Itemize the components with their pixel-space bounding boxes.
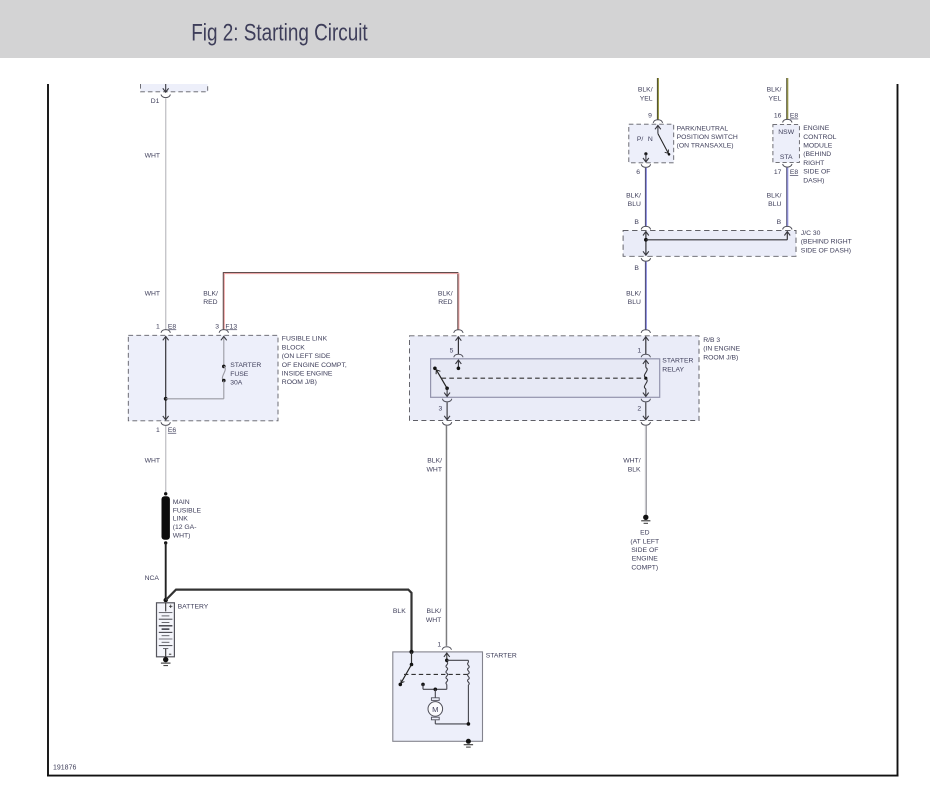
svg-text:BLK/: BLK/ [427, 608, 442, 615]
label BLK/BLU lower [626, 290, 641, 306]
fusible link block dashed box [128, 335, 278, 421]
label MAIN FUSIBLE LINK [173, 499, 202, 540]
starter motor ground wire [435, 722, 470, 726]
wire NCA fusible link to battery [165, 543, 167, 600]
relay pin 3 lead [444, 388, 450, 396]
svg-text:PARK/NEUTRAL: PARK/NEUTRAL [677, 125, 729, 132]
P/N switch output contact [643, 152, 649, 162]
svg-text:LINK: LINK [173, 516, 189, 523]
svg-text:COMPT): COMPT) [631, 564, 658, 571]
svg-text:WHT: WHT [145, 153, 160, 160]
svg-text:WHT: WHT [427, 467, 442, 474]
svg-text:BLU: BLU [768, 201, 781, 208]
svg-text:(12 GA-: (12 GA- [173, 524, 197, 531]
starter solenoid contact stub [421, 683, 425, 690]
svg-text:BLK/: BLK/ [767, 192, 782, 199]
svg-text:WHT): WHT) [173, 533, 191, 540]
svg-text:16: 16 [774, 113, 782, 120]
svg-text:WHT: WHT [145, 290, 160, 297]
connector arc pin 17 [783, 164, 792, 167]
connector arc starter pin 1 [442, 647, 451, 650]
svg-text:CONTROL: CONTROL [803, 134, 836, 141]
svg-text:BLK: BLK [628, 467, 641, 474]
J/C 30 junction dot [644, 238, 648, 242]
svg-text:2: 2 [637, 406, 641, 413]
connector arc relay pin 3 inner [442, 399, 451, 402]
connector arc pin 9 [653, 120, 662, 123]
connector arc J/C 30 right top [783, 226, 792, 229]
connector arc relay pin 1 outer [641, 330, 650, 333]
svg-text:STARTER: STARTER [230, 362, 261, 369]
starter pin 1 internal lead [444, 653, 450, 662]
wire BLK/RED fusible link to starter relay [223, 273, 459, 330]
svg-text:N: N [648, 136, 653, 143]
svg-text:BATTERY: BATTERY [178, 603, 209, 610]
connector arc relay pin 3 outer [442, 422, 451, 425]
label ENGINE CONTROL MODULE [803, 125, 836, 184]
svg-text:BLK/: BLK/ [638, 87, 653, 94]
starter coil output wire [423, 688, 447, 692]
svg-text:FUSIBLE LINK: FUSIBLE LINK [282, 336, 328, 343]
starter motor M [428, 689, 443, 724]
connector arc relay pin 1 inner [641, 354, 650, 357]
starter ground node [464, 739, 473, 747]
svg-text:BLK/: BLK/ [767, 87, 782, 94]
svg-text:BLOCK: BLOCK [282, 344, 306, 351]
label BLK/RED left [203, 290, 218, 306]
svg-text:30A: 30A [230, 380, 243, 387]
starter hold-in coil [468, 660, 470, 724]
svg-text:BLK/: BLK/ [203, 290, 218, 297]
svg-text:191876: 191876 [53, 765, 76, 772]
svg-text:NCA: NCA [145, 575, 160, 582]
svg-text:ED: ED [640, 530, 650, 537]
connector arc J/C 30 bottom [641, 258, 650, 261]
svg-text:3: 3 [215, 323, 219, 330]
wire WHT to main fusible link [165, 426, 167, 493]
pin 3 F13 fusible link block [215, 323, 237, 330]
starter fuse 30A element [222, 365, 226, 399]
pin 16 E8 [774, 113, 799, 120]
wire BLK/YEL to engine control module [787, 78, 788, 119]
svg-text:Fig 2: Starting Circuit: Fig 2: Starting Circuit [191, 18, 367, 46]
wire BLK/YEL to park/neutral position switch [657, 78, 658, 120]
P/N switch input arrow [655, 125, 661, 133]
svg-text:1: 1 [437, 641, 441, 648]
relay pin 3 outer lead [444, 402, 450, 419]
title banner [0, 0, 930, 58]
svg-text:1: 1 [156, 323, 160, 330]
wire BLK/BLU J/C 30 to starter relay [645, 262, 646, 330]
connector arc J/C 30 left top [641, 226, 650, 229]
svg-text:STARTER: STARTER [486, 653, 517, 660]
svg-text:SIDE OF: SIDE OF [803, 169, 830, 176]
svg-text:FUSE: FUSE [230, 371, 249, 378]
svg-text:E6: E6 [168, 427, 177, 434]
svg-text:B: B [777, 219, 782, 226]
svg-text:SIDE OF DASH): SIDE OF DASH) [801, 247, 851, 254]
pin 1 E8 fusible link block [156, 323, 176, 330]
svg-text:YEL: YEL [769, 95, 782, 102]
svg-text:FUSIBLE: FUSIBLE [173, 507, 202, 514]
junction dot in fusible link block [164, 397, 168, 401]
svg-text:BLK: BLK [393, 608, 406, 615]
fusible link block label [282, 336, 347, 387]
junction connector J/C 30 dashed box [623, 231, 796, 257]
svg-text:F13: F13 [225, 323, 237, 330]
pin 17 E8 [774, 169, 799, 176]
svg-text:9: 9 [648, 113, 652, 120]
relay block R/B 3 dashed box [410, 336, 700, 421]
park/neutral position switch dashed box [629, 124, 674, 163]
label BLK/WHT upper [427, 458, 443, 474]
svg-text:WHT: WHT [145, 457, 160, 464]
svg-text:(ON LEFT SIDE: (ON LEFT SIDE [282, 353, 331, 360]
wire BLK/WHT relay to starter [446, 426, 447, 646]
svg-text:ENGINE: ENGINE [803, 125, 830, 132]
svg-text:M: M [432, 705, 438, 714]
label ED (AT LEFT SIDE OF ENGINE COMPT) [630, 530, 659, 572]
connector arc pin 6 [641, 164, 650, 167]
starter mechanical dashed link [404, 673, 468, 675]
wire WHT/BLK relay to ground ED [645, 426, 646, 515]
svg-text:STARTER: STARTER [662, 358, 693, 365]
connector arc relay pin 5 inner [454, 354, 463, 357]
ground ED [641, 515, 650, 524]
connector arc below fusible link block [161, 422, 170, 425]
svg-text:RELAY: RELAY [662, 366, 684, 373]
svg-text:WHT: WHT [426, 617, 441, 624]
label P/ N [637, 136, 653, 143]
svg-text:BLK/: BLK/ [626, 290, 641, 297]
svg-text:ROOM J/B): ROOM J/B) [703, 354, 738, 361]
svg-text:MODULE: MODULE [803, 143, 833, 150]
label BLK/WHT lower [426, 608, 442, 624]
svg-text:POSITION SWITCH: POSITION SWITCH [677, 134, 738, 141]
J/C 30 left internal wire [643, 232, 649, 256]
svg-text:1: 1 [637, 347, 641, 354]
relay mechanical dashed link [442, 377, 644, 379]
starter switch input lead [410, 652, 414, 666]
svg-text:(ON TRANSAXLE): (ON TRANSAXLE) [677, 143, 734, 150]
svg-text:E8: E8 [790, 169, 799, 176]
svg-text:R/B 3: R/B 3 [703, 337, 720, 344]
svg-text:B: B [634, 265, 639, 272]
svg-text:RED: RED [438, 299, 452, 306]
svg-text:D1: D1 [151, 98, 160, 105]
svg-text:YEL: YEL [640, 95, 653, 102]
pin 1 E6 [156, 427, 176, 434]
svg-text:BLU: BLU [628, 299, 641, 306]
internal wire pin3 to fuse [221, 336, 227, 366]
svg-text:BLU: BLU [628, 201, 641, 208]
svg-text:P/: P/ [637, 136, 644, 143]
connector arc pin3 F13 [219, 330, 228, 333]
label BLK/BLU right [767, 192, 782, 208]
frame bottom border [47, 775, 899, 777]
svg-text:(BEHIND: (BEHIND [803, 151, 831, 158]
label BLK/RED right [438, 290, 453, 306]
label BLK/BLU left [626, 192, 641, 208]
svg-text:3: 3 [439, 406, 443, 413]
connector D1 dashed box [141, 84, 208, 92]
svg-text:DASH): DASH) [803, 177, 824, 184]
P/N switch arm [658, 134, 670, 156]
relay fixed contact [433, 367, 437, 371]
svg-text:STA: STA [780, 154, 793, 161]
svg-text:6: 6 [636, 169, 640, 176]
relay switch arm [436, 370, 449, 390]
svg-text:WHT/: WHT/ [623, 458, 640, 465]
connector arc pin 16 [783, 119, 792, 122]
svg-text:(BEHIND RIGHT: (BEHIND RIGHT [801, 239, 852, 246]
svg-text:RED: RED [203, 299, 217, 306]
J/C 30 right internal wire [784, 232, 790, 240]
label PARK/NEUTRAL POSITION SWITCH [677, 125, 738, 149]
svg-text:ROOM J/B): ROOM J/B) [282, 379, 317, 386]
junction node battery positive [164, 598, 168, 602]
svg-text:BLK/: BLK/ [427, 458, 442, 465]
battery ground [161, 657, 171, 666]
frame left border [47, 84, 49, 777]
label BLK/YEL right [767, 87, 782, 103]
battery [157, 603, 175, 657]
connector arc relay pin 2 outer [641, 422, 650, 425]
svg-text:(AT LEFT: (AT LEFT [630, 538, 659, 545]
starter pull-in coil [446, 662, 448, 689]
relay pin 2 outer lead [643, 402, 649, 419]
starter box [393, 652, 483, 741]
svg-text:(IN ENGINE: (IN ENGINE [703, 346, 740, 353]
connector arc relay pin 5 outer [454, 330, 463, 333]
svg-text:BLK/: BLK/ [626, 192, 641, 199]
label WHT/BLK [623, 458, 641, 474]
D1 arrow down [163, 84, 169, 92]
wire BLK battery to starter [166, 590, 412, 651]
J/C 30 bus wire [646, 239, 787, 241]
wire BLK/BLU ECM to J/C 30 [787, 168, 788, 227]
label R/B 3 [703, 337, 740, 361]
svg-text:OF ENGINE COMPT,: OF ENGINE COMPT, [282, 362, 347, 369]
frame right border [897, 84, 899, 777]
starter switch arm [399, 665, 412, 687]
svg-text:B: B [634, 219, 639, 226]
svg-text:J/C 30: J/C 30 [801, 230, 821, 237]
wire BLK/BLU switch to J/C 30 [645, 168, 646, 226]
svg-text:ENGINE: ENGINE [632, 556, 659, 563]
engine control module dashed box [773, 125, 800, 163]
main fusible link (12 GA-WHT) [162, 492, 170, 545]
label STARTER RELAY [662, 358, 693, 374]
svg-text:RIGHT: RIGHT [803, 160, 824, 167]
internal wire pin1 to pin E6 [163, 336, 169, 419]
connector arc relay pin 2 inner [641, 399, 650, 402]
D1 connector arc [161, 95, 170, 98]
starter relay inner box [431, 359, 660, 398]
starter BLK entry node [409, 650, 413, 654]
svg-text:1: 1 [156, 427, 160, 434]
svg-text:5: 5 [450, 347, 454, 354]
svg-text:BLK/: BLK/ [438, 290, 453, 297]
svg-text:INSIDE ENGINE: INSIDE ENGINE [282, 371, 333, 378]
relay contact input lead [456, 360, 462, 370]
svg-text:SIDE OF: SIDE OF [631, 547, 658, 554]
label J/C 30 [801, 230, 852, 254]
starter coil link wire [447, 659, 469, 661]
connector arc pin1 E8 [161, 330, 170, 333]
relay coil [643, 360, 649, 397]
svg-text:E8: E8 [168, 323, 177, 330]
relay pin 1 lead [643, 337, 649, 354]
relay pin 5 lead [456, 337, 462, 354]
svg-text:NSW: NSW [778, 129, 794, 136]
wire WHT D1 to fusible link block pin 1 [165, 98, 167, 329]
svg-text:MAIN: MAIN [173, 499, 190, 506]
svg-text:E8: E8 [790, 113, 799, 120]
label STARTER FUSE 30A [230, 362, 261, 386]
label BLK/YEL left [638, 87, 653, 103]
internal wire fuse branch horizontal [166, 398, 224, 400]
svg-text:17: 17 [774, 169, 782, 176]
